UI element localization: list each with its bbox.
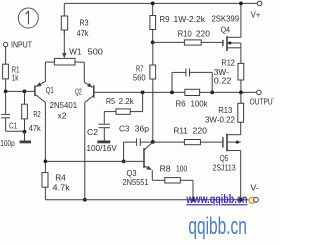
svg-text:100p: 100p bbox=[0, 138, 15, 148]
wire Q2 collector to V- rail bbox=[84, 103, 86, 200]
wire Q5 drain to rail bbox=[240, 151, 242, 200]
svg-text:OUTPUT: OUTPUT bbox=[250, 97, 274, 107]
svg-text:R9: R9 bbox=[160, 14, 170, 24]
svg-text:2.2k: 2.2k bbox=[119, 96, 135, 106]
svg-text:C2: C2 bbox=[87, 127, 98, 137]
page marker circled 1 bbox=[18, 8, 38, 28]
svg-text:2N5401: 2N5401 bbox=[50, 100, 78, 110]
resistor R3 bbox=[61, 3, 89, 38]
watermark icon bbox=[249, 197, 255, 203]
svg-text:47k: 47k bbox=[77, 28, 90, 38]
mosfet Q4 bbox=[223, 36, 241, 51]
resistor R12 bbox=[214, 57, 244, 92]
label V- bbox=[250, 182, 259, 192]
node Q3 collector bbox=[151, 140, 155, 144]
label Q5 2SJ113 bbox=[213, 153, 236, 173]
node output column bbox=[239, 91, 243, 95]
resistor R10 bbox=[153, 29, 223, 46]
resistor R6 bbox=[176, 89, 209, 108]
svg-text:R8: R8 bbox=[160, 164, 171, 174]
node C3 base tap bbox=[122, 160, 126, 164]
node input bbox=[4, 90, 8, 94]
svg-text:2N5551: 2N5551 bbox=[123, 177, 149, 187]
svg-text:220: 220 bbox=[193, 125, 208, 135]
svg-text:2SJ113: 2SJ113 bbox=[213, 163, 236, 173]
wire rail to V- terminal bbox=[241, 199, 252, 201]
capacitor C2 bbox=[87, 112, 118, 153]
wire W1 to Q2 emitter bbox=[75, 62, 84, 82]
resistor R11 bbox=[153, 125, 223, 144]
resistor R8 bbox=[152, 164, 193, 200]
resistor R1 bbox=[3, 64, 20, 82]
svg-text:Q1: Q1 bbox=[46, 85, 54, 95]
resistor R13 bbox=[205, 92, 244, 134]
ground (C2) bbox=[97, 140, 110, 143]
wire R1 to input node bbox=[5, 79, 7, 92]
svg-text:R12: R12 bbox=[221, 57, 235, 67]
terminal OUTPUT bbox=[250, 90, 278, 107]
svg-text:100: 100 bbox=[176, 164, 187, 174]
svg-text:Q2: Q2 bbox=[75, 87, 82, 97]
svg-text:R2: R2 bbox=[33, 109, 40, 119]
svg-text:1k: 1k bbox=[12, 72, 19, 82]
capacitor C1 bbox=[0, 91, 24, 148]
svg-text:220: 220 bbox=[196, 29, 210, 39]
watermark large bbox=[188, 213, 247, 240]
node R6 left bbox=[170, 91, 174, 95]
svg-text:100/16V: 100/16V bbox=[87, 143, 118, 153]
transistor Q1 bbox=[35, 81, 54, 102]
node R2 tap bbox=[23, 90, 27, 94]
node top rail / R9 bbox=[151, 2, 155, 6]
svg-text:x2: x2 bbox=[58, 111, 67, 121]
terminal V+ bbox=[251, 1, 262, 20]
svg-text:qqibb.cn: qqibb.cn bbox=[188, 213, 247, 240]
svg-text:47k: 47k bbox=[29, 123, 42, 133]
resistor R9 bbox=[150, 3, 206, 42]
svg-text:100k: 100k bbox=[191, 98, 209, 108]
ground (input network) bbox=[20, 132, 31, 142]
node R2/C1 junction bbox=[23, 130, 27, 134]
resistor R4 bbox=[42, 161, 71, 199]
svg-text:1W-2.2k: 1W-2.2k bbox=[174, 14, 206, 24]
capacitor C3 bbox=[119, 123, 153, 161]
svg-text:560: 560 bbox=[133, 72, 146, 82]
mosfet Q5 bbox=[223, 134, 241, 152]
svg-text:R11: R11 bbox=[173, 125, 188, 135]
svg-text:W1: W1 bbox=[69, 46, 81, 56]
svg-text:R5: R5 bbox=[106, 96, 115, 106]
svg-text:V-: V- bbox=[250, 182, 259, 192]
svg-text:Q5: Q5 bbox=[220, 153, 229, 163]
svg-text:R3: R3 bbox=[80, 18, 89, 28]
node R6 right bbox=[210, 91, 214, 95]
node R4 tap bbox=[44, 160, 48, 164]
wire Q1 collector to Q3 base bbox=[45, 102, 144, 161]
potentiometer W1 bbox=[54, 30, 103, 65]
wire Q4 source to R12 bbox=[240, 43, 242, 63]
svg-text:3W-0.22: 3W-0.22 bbox=[205, 114, 235, 124]
svg-text:Q4: Q4 bbox=[221, 25, 230, 35]
transistor Q2 bbox=[75, 82, 94, 102]
svg-text:C1: C1 bbox=[9, 120, 17, 130]
node feedback tap bbox=[141, 91, 145, 95]
transistor Q3 bbox=[123, 142, 153, 187]
svg-text:0.22: 0.22 bbox=[214, 76, 232, 86]
svg-text:2SK399: 2SK399 bbox=[212, 13, 240, 23]
top supply rail bbox=[64, 2, 257, 4]
node top rail / Q4 bbox=[239, 2, 243, 6]
node R8 at rail bbox=[191, 198, 195, 202]
svg-text:R4: R4 bbox=[55, 173, 66, 183]
svg-text:V+: V+ bbox=[251, 10, 260, 20]
svg-text:R10: R10 bbox=[178, 29, 192, 39]
svg-text:C3: C3 bbox=[119, 123, 130, 133]
bottom supply rail bbox=[45, 199, 240, 201]
node Q2 collector at rail bbox=[83, 198, 87, 202]
capacitor parallel R6 bbox=[172, 69, 212, 93]
resistor R2 bbox=[22, 91, 42, 132]
node R9 R10 R7 bbox=[151, 41, 155, 45]
input terminal bbox=[3, 40, 32, 50]
terminal V- bbox=[254, 197, 259, 202]
svg-text:36p: 36p bbox=[135, 123, 149, 133]
wire input to R1 bbox=[5, 47, 7, 64]
svg-text:4.7k: 4.7k bbox=[53, 183, 71, 193]
resistor R5 bbox=[104, 92, 142, 114]
resistor R7 bbox=[133, 42, 156, 141]
svg-text:500: 500 bbox=[88, 46, 104, 56]
svg-text:www.qqibb.cn: www.qqibb.cn bbox=[186, 194, 248, 206]
output node line bbox=[94, 91, 257, 93]
wire Q4 drain to rail bbox=[240, 3, 242, 37]
node Q5 at rail bbox=[239, 198, 243, 202]
svg-text:INPUT: INPUT bbox=[11, 40, 33, 50]
wire Q1 emitter to W1 bbox=[45, 62, 54, 82]
label 2SK399 Q4 bbox=[212, 13, 240, 34]
label 2N5401 x2 bbox=[50, 100, 78, 120]
watermark small bbox=[186, 194, 248, 206]
wire input node to Q1 base bbox=[6, 90, 35, 92]
svg-text:R6: R6 bbox=[176, 98, 186, 108]
